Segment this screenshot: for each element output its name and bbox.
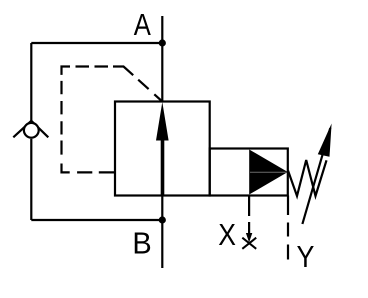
pilot drain line Y dashed	[287, 196, 289, 260]
drain line X arrowhead	[246, 233, 252, 243]
spring zigzag	[288, 160, 327, 196]
drain line X segments	[248, 196, 250, 238]
valve flow arrow shaft	[161, 138, 165, 196]
valve flow arrow head	[156, 102, 169, 141]
drain plug cross X	[242, 238, 256, 249]
wire left branch vertical upper (to check valve)	[30, 43, 32, 123]
pilot stage box	[210, 149, 288, 196]
wire B vertical line	[161, 196, 163, 269]
pilot line dashed (left loop and diagonal to valve top)	[62, 67, 163, 173]
node junction dot A	[159, 39, 166, 46]
svg-text:X: X	[218, 218, 236, 252]
valve main body box	[115, 102, 210, 196]
wire left branch vertical lower (check valve to B wire)	[30, 139, 32, 220]
wire A horizontal to left branch	[31, 42, 162, 44]
pilot poppet seam line	[250, 171, 287, 173]
svg-text:B: B	[132, 227, 151, 261]
adjustment arrow head	[318, 124, 332, 157]
check valve V1 ball circle	[24, 123, 39, 138]
svg-text:A: A	[134, 8, 151, 42]
pilot poppet triangle (filled)	[249, 150, 288, 195]
adjustment arrow shaft	[302, 128, 330, 224]
wire A vertical line	[161, 16, 163, 102]
wire B horizontal	[31, 219, 162, 221]
svg-text:Y: Y	[297, 240, 315, 274]
check valve V1 seat lines	[13, 121, 48, 138]
node junction dot B	[159, 216, 166, 223]
